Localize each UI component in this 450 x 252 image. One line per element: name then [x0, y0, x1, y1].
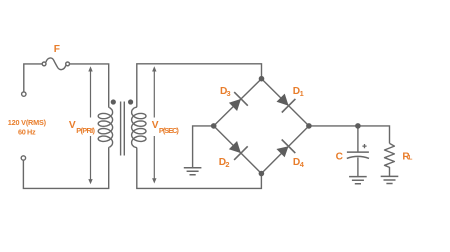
- svg-text:120 V(RMS): 120 V(RMS): [8, 118, 47, 127]
- svg-text:P(SEC): P(SEC): [159, 126, 180, 135]
- svg-text:2: 2: [225, 160, 229, 169]
- svg-text:4: 4: [300, 160, 305, 169]
- svg-text:P(PRI): P(PRI): [76, 126, 95, 135]
- svg-text:F: F: [54, 44, 60, 55]
- svg-text:V: V: [152, 120, 159, 131]
- svg-text:1: 1: [300, 89, 304, 98]
- svg-text:V: V: [69, 120, 76, 131]
- svg-text:3: 3: [227, 89, 231, 98]
- svg-text:C: C: [336, 151, 344, 162]
- svg-text:60 Hz: 60 Hz: [18, 127, 36, 136]
- svg-text:L: L: [409, 155, 413, 162]
